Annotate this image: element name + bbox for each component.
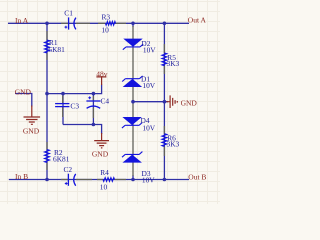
svg-text:10V: 10V xyxy=(142,175,155,184)
svg-text:C2: C2 xyxy=(64,165,73,174)
svg-text:C4: C4 xyxy=(101,97,110,106)
svg-text:3K3: 3K3 xyxy=(167,139,180,148)
svg-text:3K3: 3K3 xyxy=(167,59,180,68)
svg-text:10V: 10V xyxy=(142,81,155,90)
svg-text:C1: C1 xyxy=(64,8,73,17)
svg-text:R3: R3 xyxy=(102,12,111,21)
svg-text:Out A: Out A xyxy=(188,15,207,24)
svg-text:10: 10 xyxy=(100,183,108,192)
svg-text:10: 10 xyxy=(101,25,109,34)
svg-text:In B: In B xyxy=(15,172,28,181)
svg-text:10V: 10V xyxy=(143,46,156,55)
svg-text:48v: 48v xyxy=(96,70,108,79)
svg-text:6K81: 6K81 xyxy=(53,155,70,164)
svg-text:R4: R4 xyxy=(100,168,109,177)
svg-text:GND: GND xyxy=(23,127,40,136)
svg-text:Out B: Out B xyxy=(188,173,206,182)
svg-text:GND: GND xyxy=(15,87,32,96)
svg-text:6K81: 6K81 xyxy=(48,45,65,54)
svg-text:10V: 10V xyxy=(142,123,155,132)
svg-text:C3: C3 xyxy=(70,101,79,110)
svg-text:In A: In A xyxy=(15,16,29,25)
svg-text:GND: GND xyxy=(92,150,109,159)
svg-text:GND: GND xyxy=(181,99,198,108)
